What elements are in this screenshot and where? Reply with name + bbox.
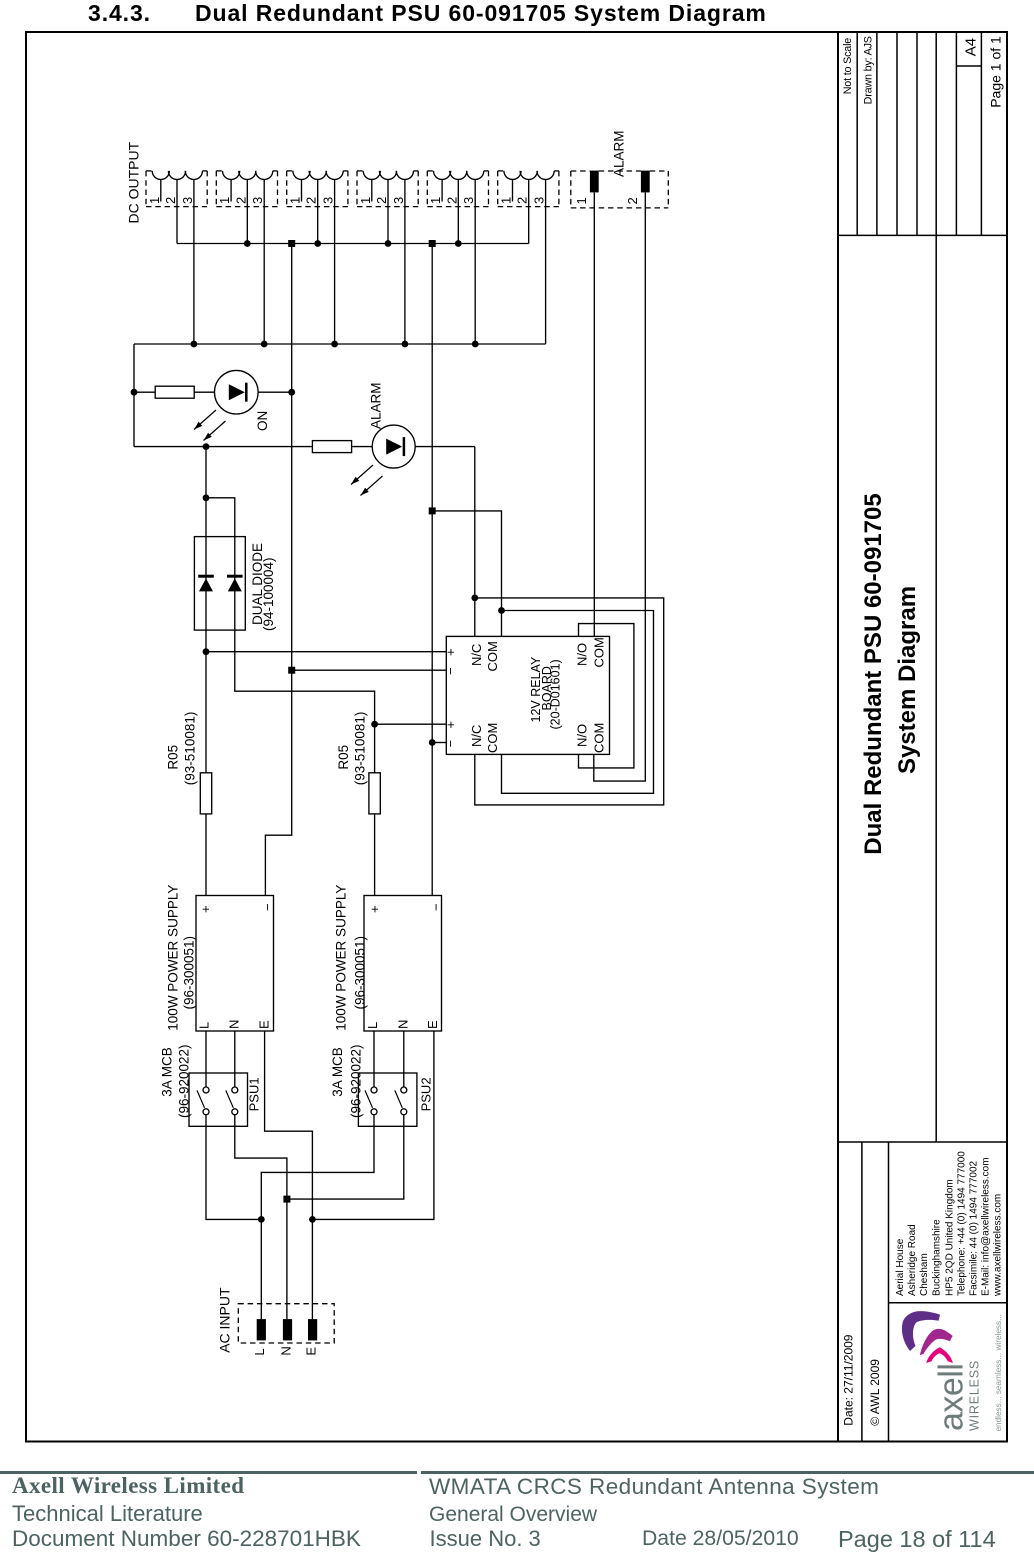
svg-text:Chesham: Chesham xyxy=(919,1253,930,1296)
svg-text:ALARM: ALARM xyxy=(369,382,384,429)
svg-text:(93-510081): (93-510081) xyxy=(353,712,368,786)
svg-text:+: + xyxy=(198,905,213,913)
svg-text:Asheridge Road: Asheridge Road xyxy=(907,1224,918,1296)
svg-text:R05: R05 xyxy=(165,745,180,770)
svg-text:(96-920022): (96-920022) xyxy=(349,1044,364,1118)
svg-text:Facsimile: 44 (0) 1494 77700: Facsimile: 44 (0) 1494 777002 xyxy=(969,1160,980,1296)
svg-text:(96-300051): (96-300051) xyxy=(352,936,367,1010)
svg-text:ALARM: ALARM xyxy=(612,130,627,177)
svg-text:3: 3 xyxy=(391,197,406,204)
svg-text:L: L xyxy=(197,1022,212,1029)
svg-text:−: − xyxy=(443,667,458,675)
svg-text:COM: COM xyxy=(485,641,500,671)
svg-text:−: − xyxy=(260,903,275,911)
svg-text:1: 1 xyxy=(428,197,443,204)
svg-text:AC INPUT: AC INPUT xyxy=(217,1287,233,1353)
svg-text:2: 2 xyxy=(515,197,530,204)
svg-text:2: 2 xyxy=(444,197,459,204)
svg-text:N: N xyxy=(227,1020,242,1029)
svg-text:ON: ON xyxy=(255,411,270,431)
svg-text:Not to Scale: Not to Scale xyxy=(842,38,854,95)
svg-text:E: E xyxy=(303,1347,318,1356)
svg-text:Telephone: +44 (0) 1494 777000: Telephone: +44 (0) 1494 777000 xyxy=(957,1151,968,1296)
svg-text:DC OUTPUT: DC OUTPUT xyxy=(126,141,142,223)
svg-text:System Diagram: System Diagram xyxy=(894,586,921,774)
svg-text:N/C: N/C xyxy=(469,644,484,666)
svg-text:(93-510081): (93-510081) xyxy=(182,712,197,786)
svg-text:E: E xyxy=(257,1020,272,1029)
svg-text:A4: A4 xyxy=(962,38,979,56)
svg-text:Drawn by: AJS: Drawn by: AJS xyxy=(862,36,874,104)
svg-text:E: E xyxy=(425,1020,440,1029)
svg-text:endless... seamless... wirel: endless... seamless... wireless... xyxy=(994,1314,1003,1431)
svg-text:R05: R05 xyxy=(336,745,351,770)
svg-text:100W POWER SUPPLY: 100W POWER SUPPLY xyxy=(334,885,349,1031)
svg-text:1: 1 xyxy=(147,197,162,204)
svg-text:1: 1 xyxy=(574,197,589,204)
svg-text:3A MCB: 3A MCB xyxy=(330,1047,345,1097)
svg-text:COM: COM xyxy=(485,723,500,753)
svg-text:100W POWER SUPPLY: 100W POWER SUPPLY xyxy=(165,885,180,1031)
svg-text:(96-300051): (96-300051) xyxy=(181,936,196,1010)
svg-text:E-Mail: info@axellwireless.com: E-Mail: info@axellwireless.com xyxy=(981,1157,992,1296)
svg-text:N/O: N/O xyxy=(574,643,589,666)
svg-text:1: 1 xyxy=(217,197,232,204)
svg-text:+: + xyxy=(367,905,382,913)
svg-text:www.axellwireless.com: www.axellwireless.com xyxy=(993,1194,1004,1297)
svg-text:3: 3 xyxy=(180,197,195,204)
svg-text:3: 3 xyxy=(532,197,547,204)
svg-text:(96-920022): (96-920022) xyxy=(176,1044,191,1118)
svg-text:+: + xyxy=(443,648,458,656)
svg-text:N/C: N/C xyxy=(469,725,484,747)
svg-text:L: L xyxy=(252,1348,267,1355)
svg-text:3: 3 xyxy=(321,197,336,204)
svg-text:2: 2 xyxy=(374,197,389,204)
svg-text:(20-D01601): (20-D01601) xyxy=(549,659,563,729)
svg-text:N: N xyxy=(278,1346,293,1355)
svg-text:WIRELESS: WIRELESS xyxy=(968,1360,982,1431)
svg-text:1: 1 xyxy=(288,197,303,204)
svg-text:Page 1 of 1: Page 1 of 1 xyxy=(987,36,1003,108)
svg-text:Dual Redundant PSU 60-091705: Dual Redundant PSU 60-091705 xyxy=(860,493,887,854)
svg-text:2: 2 xyxy=(625,197,640,204)
svg-text:Aerial House: Aerial House xyxy=(895,1238,906,1296)
svg-text:COM: COM xyxy=(592,637,607,667)
svg-text:L: L xyxy=(365,1022,380,1029)
svg-text:Buckinghamshire: Buckinghamshire xyxy=(932,1219,943,1296)
svg-text:2: 2 xyxy=(304,197,319,204)
svg-text:© AWL 2009: © AWL 2009 xyxy=(868,1359,882,1426)
svg-text:COM: COM xyxy=(592,723,607,753)
svg-text:3: 3 xyxy=(250,197,265,204)
svg-text:2: 2 xyxy=(163,197,178,204)
svg-text:HP5 2QD United Kingdom: HP5 2QD United Kingdom xyxy=(945,1179,956,1296)
svg-text:3A MCB: 3A MCB xyxy=(160,1047,175,1097)
svg-text:3: 3 xyxy=(461,197,476,204)
svg-text:1: 1 xyxy=(358,197,373,204)
svg-text:N: N xyxy=(395,1020,410,1029)
svg-text:axell: axell xyxy=(932,1364,970,1431)
svg-text:PSU1: PSU1 xyxy=(246,1077,261,1111)
svg-text:2: 2 xyxy=(233,197,248,204)
svg-text:−: − xyxy=(443,740,458,748)
svg-text:Date: 27/11/2009: Date: 27/11/2009 xyxy=(841,1334,855,1426)
svg-text:N/O: N/O xyxy=(574,724,589,747)
svg-text:PSU2: PSU2 xyxy=(419,1077,434,1111)
svg-text:1: 1 xyxy=(499,197,514,204)
svg-text:(94-100004): (94-100004) xyxy=(261,557,276,631)
svg-text:−: − xyxy=(429,903,444,911)
svg-text:+: + xyxy=(443,721,458,729)
